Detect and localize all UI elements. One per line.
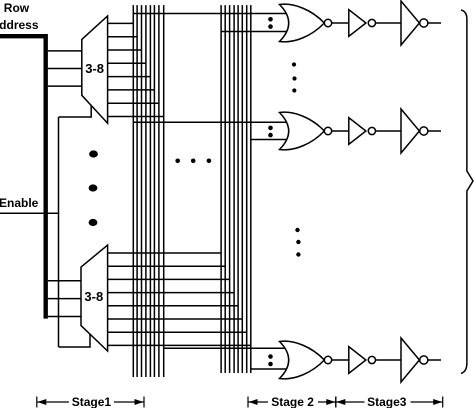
svg-text:Stage 2: Stage 2 [271, 395, 314, 408]
ellipsis dots between row 1 and row 2 [292, 62, 297, 92]
row 2 tap wire from left bus to NOR G2 [133, 121, 290, 123]
decoder U2 address input wires [48, 281, 82, 317]
Stage1 dimension annotation [37, 395, 144, 408]
row 3 tap wire from right bus to NOR G3 [251, 368, 290, 370]
wire NOR G3 to inverter U7 [332, 359, 349, 361]
Stage 2 dimension annotation [248, 395, 336, 408]
svg-text:Enable: Enable [0, 196, 39, 210]
right predecode bus lines (8 wires) [221, 5, 251, 373]
enable branch wire to U1 [59, 105, 92, 118]
row 1 tap wire from left bus to NOR G1 [133, 13, 290, 15]
wire inverter U7 to inverter U8 [376, 359, 402, 361]
svg-text:3-8: 3-8 [84, 289, 103, 304]
row 2 tap wire from right bus to NOR G2 [251, 139, 290, 141]
row 3 tap wire from left bus to NOR G3 [164, 347, 290, 349]
enable branch wire to U2 [59, 334, 91, 348]
row 1 tap wire from right bus to NOR G1 [221, 31, 290, 33]
wire inverter U5 to inverter U6 [376, 130, 402, 132]
inverter U6 (word-line driver) [401, 109, 428, 153]
inverter U8 (word-line driver) [401, 338, 428, 382]
inverter U3 [349, 10, 376, 37]
ellipsis dots between decoders U1 and U2 [89, 150, 98, 226]
svg-text:Row: Row [4, 1, 30, 15]
word line output wire row 2 [428, 130, 441, 132]
left predecode bus lines (8 wires) [133, 5, 163, 377]
inverter U5 [349, 118, 376, 145]
row address bus (thick wire) [0, 36, 46, 318]
NOR G1 extra-input ellipsis dots [268, 17, 273, 29]
word-line group brace [461, 10, 473, 374]
wire NOR G2 to inverter U5 [332, 130, 349, 132]
NOR G3 extra-input ellipsis dots [268, 354, 273, 366]
NOR G2 extra-input ellipsis dots [268, 126, 273, 138]
svg-text:Address: Address [0, 18, 39, 32]
decoder U1 output wires (staircase to left predecode bus) [107, 23, 164, 116]
svg-text:Stage1: Stage1 [72, 395, 112, 408]
label Row Address [0, 1, 39, 32]
svg-text:Stage3: Stage3 [367, 395, 407, 408]
wire inverter U3 to inverter U4 [376, 22, 402, 24]
Stage3 dimension annotation [336, 395, 443, 408]
decoder U2 (3-8 predecoder) [81, 245, 108, 351]
decoder U2 output wires (staircase to right predecode bus) [107, 253, 251, 345]
svg-text:3-8: 3-8 [85, 61, 104, 76]
NOR gate G3 [280, 341, 332, 379]
decoder U1 address input wires [48, 51, 83, 86]
word line output wire row 1 [428, 22, 441, 24]
wire NOR G1 to inverter U3 [332, 22, 349, 24]
Enable input wire [0, 212, 59, 214]
inverter U7 [349, 347, 376, 374]
NOR gate G1 [280, 4, 332, 42]
ellipsis dots between predecode bus groups [175, 159, 211, 164]
NOR gate G2 [280, 112, 332, 150]
enable vertical distribution wire [58, 117, 60, 347]
ellipsis dots between row 2 and row 3 [295, 228, 300, 257]
word line output wire row 3 [428, 359, 441, 361]
inverter U4 (word-line driver) [401, 1, 428, 45]
decoder U1 (3-8 predecoder) [82, 16, 108, 123]
